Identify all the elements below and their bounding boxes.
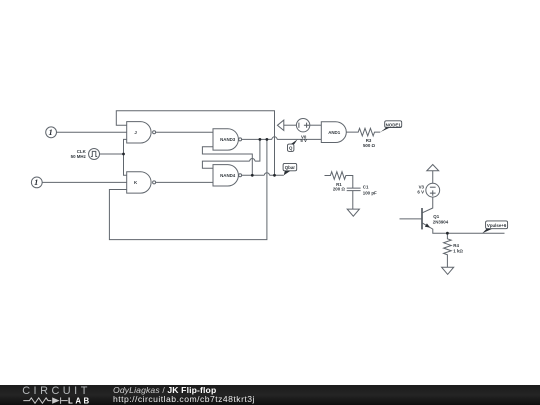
svg-text:Q1: Q1 — [433, 214, 439, 219]
svg-text:AND1: AND1 — [328, 130, 341, 135]
svg-text:NAND4: NAND4 — [220, 173, 236, 178]
svg-text:V3: V3 — [419, 184, 425, 189]
svg-text:200 Ω: 200 Ω — [333, 187, 346, 192]
svg-text:1: 1 — [34, 177, 38, 187]
svg-text:50 MHz: 50 MHz — [71, 154, 87, 159]
svg-text:2N3904: 2N3904 — [433, 219, 449, 224]
svg-text:NAND3: NAND3 — [220, 137, 236, 142]
svg-text:C1: C1 — [363, 184, 369, 189]
svg-text:NODE1: NODE1 — [386, 122, 402, 127]
svg-text:100 pF: 100 pF — [363, 190, 377, 195]
svg-text:1 kΩ: 1 kΩ — [453, 249, 463, 254]
svg-text:5 V: 5 V — [300, 138, 307, 143]
svg-text:CIRCUIT: CIRCUIT — [22, 385, 91, 397]
svg-text:Q: Q — [289, 146, 293, 151]
svg-text:6 V: 6 V — [417, 190, 424, 195]
svg-text:CLK: CLK — [77, 149, 87, 154]
svg-text:LAB: LAB — [68, 396, 92, 405]
svg-text:1: 1 — [48, 127, 52, 137]
svg-text:Vpulse+6: Vpulse+6 — [487, 223, 507, 228]
svg-text:Qbar: Qbar — [285, 165, 296, 170]
svg-text:500 Ω: 500 Ω — [363, 143, 376, 148]
svg-text:R4: R4 — [453, 243, 459, 248]
